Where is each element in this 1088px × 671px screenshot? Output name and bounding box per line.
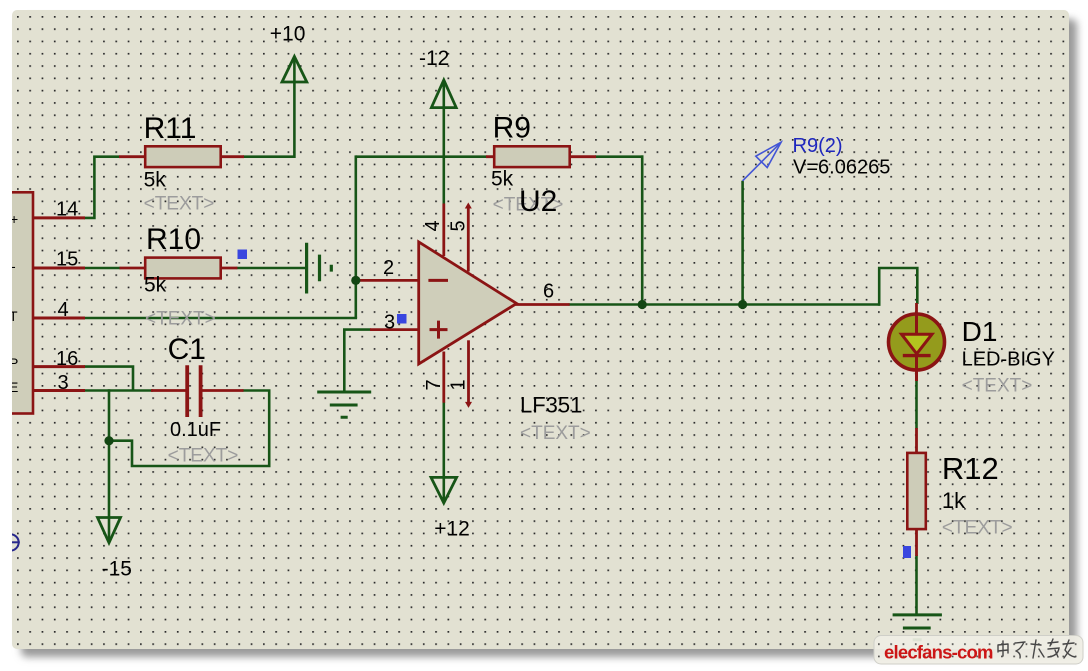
svg-text:LED-BIGY: LED-BIGY [962,349,1055,371]
svg-text:0.1uF: 0.1uF [170,419,221,441]
svg-text:U2: U2 [519,185,557,218]
svg-text:C1: C1 [168,333,206,366]
svg-text:<TEXT>: <TEXT> [168,446,239,467]
svg-text:2: 2 [383,257,394,279]
svg-text:15: 15 [56,249,78,271]
svg-text:5k: 5k [491,168,514,191]
svg-text:1: 1 [448,379,470,390]
svg-text:R11: R11 [144,112,197,145]
svg-text:4: 4 [422,220,444,231]
svg-text:R9: R9 [493,112,531,145]
svg-text:-15: -15 [102,558,132,581]
svg-text:<TEXT>: <TEXT> [144,194,215,215]
svg-text:<TEXT>: <TEXT> [520,423,591,444]
svg-text:<TEXT>: <TEXT> [942,518,1013,539]
svg-text:5k: 5k [144,169,167,192]
svg-text:5k: 5k [144,274,167,297]
svg-text:R10: R10 [146,223,201,256]
svg-text:D1: D1 [962,316,998,347]
svg-text:+12: +12 [434,518,470,541]
svg-text:R9(2): R9(2) [793,135,843,157]
svg-text:elecfans-com: elecfans-com [884,642,993,663]
svg-text:7: 7 [423,379,445,390]
svg-text:3: 3 [58,372,69,394]
svg-text:R12: R12 [942,451,999,486]
svg-text:6: 6 [543,281,554,303]
svg-text:<TEXT>: <TEXT> [962,376,1033,397]
svg-text:<TEXT>: <TEXT> [145,309,216,330]
svg-text:-12: -12 [419,47,449,70]
svg-text:+10: +10 [270,23,306,46]
svg-text:3: 3 [384,312,395,334]
svg-text:LF351: LF351 [520,393,582,418]
svg-text:14: 14 [56,199,78,221]
svg-text:4: 4 [58,299,69,321]
svg-text:5: 5 [448,220,470,231]
svg-text:1k: 1k [942,488,966,513]
svg-text:V=6.06265: V=6.06265 [793,157,890,179]
svg-text:16: 16 [56,348,78,370]
